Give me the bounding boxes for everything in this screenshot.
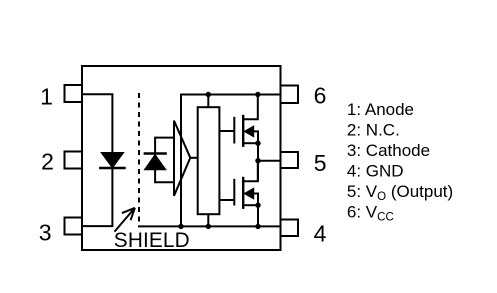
wire Q2 source to GND rail	[257, 205, 259, 226]
MOSFET Q2 body wire	[253, 194, 258, 206]
junction dot Q1 drain at VCC rail	[255, 92, 260, 97]
photodiode PD triangle	[144, 155, 166, 170]
svg-text:5: 5	[314, 150, 327, 176]
junction dot Q2 source at GND rail	[255, 224, 260, 229]
wire pin5 output	[258, 160, 281, 162]
LED D1 cathode bar	[99, 167, 126, 169]
pin 1 pad	[65, 85, 83, 102]
pin 3 pad	[65, 218, 83, 235]
svg-text:3: Cathode: 3: Cathode	[347, 141, 430, 160]
MOSFET Q2 gate bar	[233, 179, 235, 206]
MOSFET Q1 gate bar	[233, 117, 235, 144]
wire amp output to block	[190, 157, 197, 159]
pin 5 pad	[281, 152, 299, 168]
GND bottom rail	[138, 225, 281, 227]
svg-text:4: 4	[314, 221, 327, 247]
junction dot pin5 node	[255, 158, 260, 163]
svg-text:3: 3	[39, 220, 52, 246]
MOSFET Q1 source wire	[244, 142, 258, 144]
photodiode cathode bar	[144, 152, 167, 154]
svg-text:1: 1	[40, 84, 53, 110]
svg-text:2: 2	[41, 148, 54, 174]
LED D1 triangle	[101, 153, 124, 168]
amplifier U1 triangle	[174, 121, 190, 196]
MOSFET Q1 gate lead	[219, 130, 233, 132]
wire LED cathode to pin3	[82, 168, 112, 226]
svg-text:6: 6	[314, 83, 327, 109]
MOSFET Q2 drain wire	[244, 161, 258, 182]
shield arrow	[115, 208, 135, 232]
MOSFET Q2 gate lead	[219, 199, 233, 201]
MOSFET Q2 source wire	[244, 204, 258, 206]
MOSFET Q1 body wire	[253, 131, 258, 143]
pin 4 pad	[281, 220, 299, 237]
junction dot power drop at GND rail	[178, 224, 183, 229]
wire Q1 source to pin5 node	[257, 143, 259, 161]
svg-text:SHIELD: SHIELD	[114, 229, 190, 252]
shield dashed line	[138, 93, 140, 222]
junction dot block top	[206, 92, 211, 97]
wire pin5 node to Q2 drain	[257, 161, 259, 182]
svg-text:1: Anode: 1: Anode	[347, 100, 414, 119]
VCC top rail and power drop wire	[181, 95, 281, 227]
wire block top stub	[207, 95, 209, 108]
MOSFET Q1 channel bar	[242, 115, 244, 147]
MOSFET Q1 drain wire	[244, 95, 258, 120]
junction dot Q2 source	[255, 203, 260, 208]
pin 6 pad	[281, 86, 299, 104]
pin 2 pad	[65, 152, 83, 169]
svg-text:5: VO (Output): 5: VO (Output)	[347, 182, 453, 203]
svg-text:2: N.C.: 2: N.C.	[347, 121, 400, 140]
junction dot Q1 source	[255, 141, 260, 146]
MOSFET Q1 body arrow	[244, 126, 254, 137]
MOSFET Q2 channel bar	[242, 177, 244, 209]
MOSFET Q2 body arrow	[244, 188, 254, 199]
photodiode branch wires	[155, 138, 174, 183]
wire block bottom stub	[207, 214, 209, 226]
package outline	[82, 66, 281, 250]
control block rectangle	[198, 107, 220, 214]
junction dot block bottom	[206, 224, 211, 229]
wire pin1 to LED anode	[82, 94, 112, 152]
svg-text:4: GND: 4: GND	[347, 162, 404, 181]
